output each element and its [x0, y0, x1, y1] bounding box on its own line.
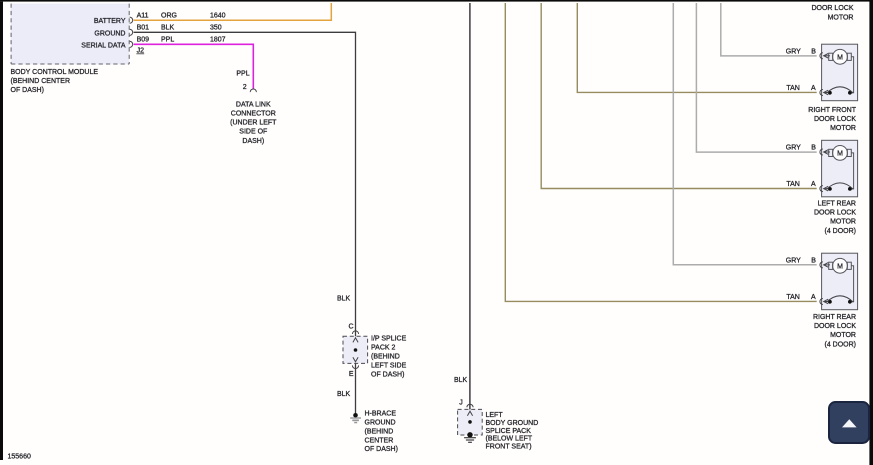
svg-text:MOTOR: MOTOR [830, 332, 856, 339]
svg-text:(BEHIND: (BEHIND [371, 354, 400, 361]
svg-text:BODY GROUND: BODY GROUND [486, 420, 539, 427]
splice pack E connector arc [352, 365, 358, 368]
svg-text:CONNECTOR: CONNECTOR [231, 111, 276, 118]
svg-text:DOOR LOCK: DOOR LOCK [814, 323, 856, 330]
svg-text:J: J [459, 400, 463, 407]
top black bar [0, 0, 873, 2]
motor M3 caption [813, 314, 856, 348]
svg-text:A: A [811, 181, 816, 188]
motor M1 caption [808, 107, 856, 132]
svg-text:TAN: TAN [786, 181, 799, 188]
left body ground splice dot [468, 420, 472, 424]
svg-text:2: 2 [243, 84, 247, 91]
svg-text:RIGHT REAR: RIGHT REAR [813, 314, 856, 321]
svg-text:SPLICE PACK: SPLICE PACK [486, 428, 532, 435]
svg-text:DATA LINK: DATA LINK [236, 101, 271, 108]
svg-text:GROUND: GROUND [365, 420, 396, 427]
left body ground splice box [458, 409, 483, 435]
svg-text:GRY: GRY [786, 48, 801, 55]
left black bar [0, 2, 3, 460]
svg-text:A: A [811, 85, 816, 92]
svg-text:M: M [837, 54, 843, 61]
svg-text:B: B [811, 144, 816, 151]
svg-text:OF DASH): OF DASH) [371, 372, 404, 379]
svg-text:1640: 1640 [210, 13, 226, 20]
wire TAN to right front motor [577, 3, 816, 92]
svg-text:CENTER: CENTER [365, 437, 394, 444]
svg-text:M: M [837, 263, 843, 270]
svg-text:350: 350 [210, 25, 222, 32]
svg-text:SERIAL DATA: SERIAL DATA [81, 42, 126, 49]
svg-text:PACK 2: PACK 2 [371, 345, 395, 352]
pin B09 connector arc [130, 41, 133, 47]
svg-text:(BEHIND: (BEHIND [365, 428, 394, 435]
wire GRY to right front motor [721, 3, 817, 56]
svg-text:DOOR LOCK: DOOR LOCK [811, 5, 853, 12]
wire GRY to right rear motor [673, 3, 816, 265]
svg-text:BLK: BLK [337, 295, 351, 302]
scroll to top button [828, 401, 870, 445]
svg-text:B: B [811, 48, 816, 55]
left body ground up arrow [467, 411, 472, 416]
svg-text:GRY: GRY [786, 144, 801, 151]
svg-text:DOOR LOCK: DOOR LOCK [814, 210, 856, 217]
left body ground symbol [464, 438, 476, 443]
pin A11 connector arc [130, 17, 133, 23]
wire ORG 1640 [134, 3, 332, 20]
svg-text:(BELOW LEFT: (BELOW LEFT [486, 436, 533, 443]
I/P splice pack 2 box [343, 336, 368, 363]
svg-text:FRONT SEAT): FRONT SEAT) [486, 444, 532, 451]
wire TAN to right rear motor [505, 3, 816, 301]
svg-text:H-BRACE: H-BRACE [365, 411, 397, 418]
svg-text:OF DASH): OF DASH) [11, 87, 44, 94]
body control module box [11, 4, 130, 65]
BCM caption [11, 69, 99, 94]
data link connector caption [230, 101, 277, 144]
splice pack down arrow [353, 357, 358, 362]
right black bar [869, 0, 873, 465]
I/P splice pack caption [371, 336, 407, 379]
svg-text:GRY: GRY [786, 257, 801, 264]
svg-text:(4 DOOR): (4 DOOR) [825, 341, 857, 348]
wire TAN to left rear motor [541, 3, 817, 189]
svg-text:LEFT SIDE: LEFT SIDE [371, 363, 407, 370]
wire BLK 350 [134, 32, 356, 413]
svg-text:BODY CONTROL MODULE: BODY CONTROL MODULE [11, 69, 99, 76]
svg-text:BATTERY: BATTERY [94, 18, 126, 25]
svg-text:GROUND: GROUND [94, 30, 125, 37]
motor M2 caption [814, 201, 856, 235]
left body ground big dot [467, 432, 472, 437]
svg-text:M: M [837, 151, 843, 158]
splice dot [354, 348, 358, 352]
motor M1 right front door lock [820, 44, 858, 100]
H-brace ground dot [353, 413, 358, 418]
H-brace ground symbol [350, 417, 361, 423]
svg-text:BLK: BLK [337, 391, 351, 398]
svg-text:SIDE OF: SIDE OF [239, 129, 267, 136]
svg-text:B09: B09 [137, 37, 150, 44]
svg-text:LEFT REAR: LEFT REAR [818, 201, 856, 208]
svg-text:I/P SPLICE: I/P SPLICE [371, 336, 407, 343]
motor M2 left rear door lock [820, 140, 858, 197]
svg-text:(UNDER LEFT: (UNDER LEFT [230, 120, 277, 127]
svg-text:PPL: PPL [236, 71, 249, 78]
svg-text:155660: 155660 [8, 453, 31, 460]
left body ground caption [486, 412, 539, 451]
svg-text:A: A [811, 294, 816, 301]
svg-text:TAN: TAN [786, 85, 799, 92]
svg-text:BLK: BLK [454, 377, 468, 384]
svg-text:C: C [348, 324, 353, 331]
svg-text:PPL: PPL [161, 37, 174, 44]
wire GRY to left rear motor [696, 3, 816, 152]
svg-text:DASH): DASH) [242, 138, 264, 145]
splice pack up arrow [353, 338, 358, 343]
svg-text:BLK: BLK [161, 25, 175, 32]
svg-text:DOOR LOCK: DOOR LOCK [814, 116, 856, 123]
svg-text:E: E [349, 371, 354, 378]
motor M3 right rear door lock [820, 253, 858, 310]
splice pack C connector arc [352, 331, 358, 334]
pin B01 connector arc [130, 29, 133, 35]
svg-text:TAN: TAN [786, 294, 799, 301]
data link connector arc [250, 89, 256, 92]
svg-text:MOTOR: MOTOR [828, 14, 854, 21]
svg-text:MOTOR: MOTOR [830, 219, 856, 226]
wire PPL 1807 [134, 44, 254, 89]
pin label J2 [136, 47, 144, 54]
svg-text:(BEHIND CENTER: (BEHIND CENTER [11, 78, 71, 85]
svg-text:A11: A11 [137, 13, 149, 20]
svg-text:LEFT: LEFT [486, 412, 504, 419]
left body ground connector arc [467, 404, 473, 407]
svg-text:ORG: ORG [161, 13, 177, 20]
svg-text:1807: 1807 [210, 37, 226, 44]
svg-text:J2: J2 [137, 47, 145, 54]
svg-text:RIGHT FRONT: RIGHT FRONT [808, 107, 856, 114]
H-brace ground caption [365, 411, 398, 454]
svg-text:OF DASH): OF DASH) [365, 446, 398, 453]
svg-text:MOTOR: MOTOR [830, 125, 856, 132]
wire BLK trunk to left body ground [469, 3, 471, 433]
svg-text:B01: B01 [137, 25, 150, 32]
svg-text:(4 DOOR): (4 DOOR) [825, 228, 857, 235]
svg-text:B: B [811, 257, 816, 264]
top right cut caption DOOR LOCK MOTOR [811, 5, 853, 21]
